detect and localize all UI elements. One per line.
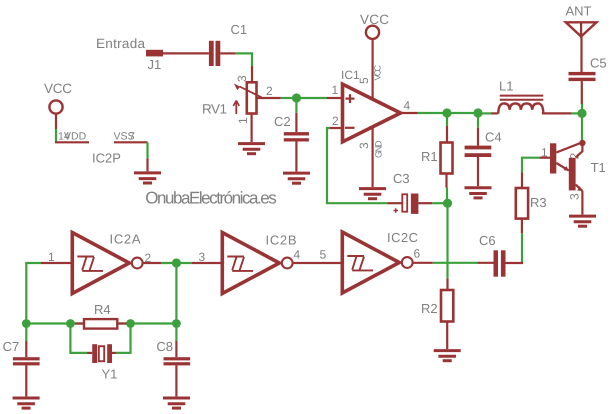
junction node C7 xyxy=(22,319,31,328)
svg-text:C1: C1 xyxy=(231,22,248,37)
wire RV1 pin2 to junction xyxy=(257,97,281,99)
svg-text:IC2B: IC2B xyxy=(266,233,297,248)
svg-text:T1: T1 xyxy=(591,160,606,175)
wire VCC to IC2P VDD xyxy=(55,129,57,142)
svg-text:VCC: VCC xyxy=(373,65,383,81)
svg-text:C2: C2 xyxy=(274,114,291,129)
resistor R3 xyxy=(516,188,547,219)
wire C1 to corner xyxy=(220,52,235,54)
svg-text:C8: C8 xyxy=(156,339,173,354)
svg-text:Y1: Y1 xyxy=(102,367,118,382)
wire R4 row xyxy=(26,322,176,324)
capacitor C6 xyxy=(479,233,506,277)
wire T1 emitter to ground xyxy=(581,191,583,215)
svg-text:R1: R1 xyxy=(421,149,438,164)
wire C2 to ground xyxy=(295,142,297,172)
wire junction to C2 xyxy=(295,98,297,113)
wire IC2A out down to R4 row xyxy=(175,263,177,324)
junction node Y1 left xyxy=(66,319,75,328)
wire junction to IC1 pin1 xyxy=(297,97,328,99)
capacitor C2 xyxy=(274,114,309,142)
wire R2 to ground xyxy=(446,322,448,350)
wire IC2A out xyxy=(143,262,161,264)
ground (C4) xyxy=(465,188,492,198)
svg-text:6: 6 xyxy=(414,247,421,261)
svg-text:C7: C7 xyxy=(3,339,20,354)
op-amp IC1 xyxy=(332,65,411,159)
wire VSS to ground xyxy=(146,142,148,158)
resistor R1 xyxy=(421,113,453,203)
svg-text:5: 5 xyxy=(320,248,327,262)
wire IC1 pin3 to ground xyxy=(372,128,374,187)
ground (C8) xyxy=(163,398,190,408)
power symbol VCC (left) xyxy=(44,81,72,129)
svg-text:C3: C3 xyxy=(393,171,410,186)
wire T1 base to R3 xyxy=(539,157,550,159)
svg-text:ANT: ANT xyxy=(566,4,592,19)
feedback wire IC1 pin2 to C3 xyxy=(329,127,341,129)
junction node IC2A out xyxy=(172,258,181,267)
capacitor C3 (polarized) xyxy=(393,171,418,214)
svg-text:3: 3 xyxy=(357,142,371,149)
wire junction to L1 xyxy=(478,112,491,114)
svg-text:RV1: RV1 xyxy=(202,102,227,117)
svg-text:4: 4 xyxy=(404,99,411,113)
svg-text:C4: C4 xyxy=(485,130,502,145)
svg-text:J1: J1 xyxy=(148,57,162,72)
svg-text:3: 3 xyxy=(199,250,206,264)
ground (T1) xyxy=(569,216,596,226)
svg-text:2: 2 xyxy=(332,114,339,128)
wire to IC2B pin3 xyxy=(192,262,221,264)
wire ANT to C5 xyxy=(580,37,582,72)
wire IC1 output pin4 xyxy=(401,112,418,114)
potentiometer RV1 xyxy=(202,75,273,124)
inverter IC2A xyxy=(48,232,152,294)
junction node C4 xyxy=(473,108,482,117)
wire IC2B out to IC2C in xyxy=(293,262,341,264)
svg-text:VDD: VDD xyxy=(64,131,87,143)
ground (R2) xyxy=(434,351,461,361)
wire L1 to junction xyxy=(542,112,571,114)
ground (IC1) xyxy=(359,189,386,199)
antenna ANT xyxy=(566,4,597,38)
IC2P pin VDD (pin 14) xyxy=(55,131,89,143)
svg-text:4: 4 xyxy=(294,248,301,262)
junction node Y1 right xyxy=(126,319,135,328)
capacitor C8 xyxy=(156,324,190,397)
inductor L1 xyxy=(498,79,543,114)
wire VCC to IC1 pin5 xyxy=(372,39,374,99)
wire R1/C3 junction down to R2 xyxy=(446,203,448,278)
svg-text:IC2A: IC2A xyxy=(110,232,141,247)
wire C3 to junction xyxy=(418,202,432,204)
svg-text:OnubaElectrónica.es: OnubaElectrónica.es xyxy=(145,189,277,208)
ground (C7) xyxy=(13,398,40,408)
wire junction to T1 collector xyxy=(581,113,583,141)
svg-text:7: 7 xyxy=(129,131,135,143)
inverter IC2B xyxy=(199,233,301,294)
junction node C8 xyxy=(172,319,181,328)
svg-text:Entrada: Entrada xyxy=(96,36,145,51)
wire C5 to junction xyxy=(581,81,583,104)
svg-text:C6: C6 xyxy=(479,233,496,248)
svg-text:R2: R2 xyxy=(421,301,438,316)
junction node R1/C3 xyxy=(443,199,452,208)
svg-text:IC2P: IC2P xyxy=(92,151,121,166)
wire RV1 pin1 to ground xyxy=(251,114,253,143)
wire J1 to C1 xyxy=(163,52,209,54)
svg-text:R3: R3 xyxy=(530,195,547,210)
svg-text:1: 1 xyxy=(332,83,339,97)
resistor R4 xyxy=(75,302,127,329)
IC2P pin VSS (pin 7) xyxy=(114,131,148,143)
svg-text:IC2C: IC2C xyxy=(387,230,418,245)
capacitor C5 xyxy=(569,56,607,82)
junction node IC1 out / R1 xyxy=(442,108,451,117)
connector J1 xyxy=(146,50,163,72)
svg-text:5: 5 xyxy=(357,77,371,84)
wire to C4 junction xyxy=(447,112,478,114)
svg-text:1: 1 xyxy=(236,117,250,124)
svg-text:VCC: VCC xyxy=(360,12,389,27)
wire IC2C out xyxy=(413,262,433,264)
junction node RV1/C2/IC1 xyxy=(292,93,301,102)
ground (IC2P VSS) xyxy=(134,173,161,183)
wire corner to IC2A pin1 xyxy=(26,263,41,324)
capacitor C1 xyxy=(209,22,247,66)
capacitor C4 xyxy=(465,113,502,186)
svg-text:L1: L1 xyxy=(499,79,513,94)
svg-text:GND: GND xyxy=(374,140,384,158)
svg-text:2: 2 xyxy=(266,84,273,98)
svg-text:3: 3 xyxy=(568,193,582,200)
junction node L1/C5/T1 xyxy=(577,109,586,118)
ground (C2) xyxy=(283,173,310,183)
svg-text:R4: R4 xyxy=(94,302,111,317)
ground (RV1) xyxy=(238,144,265,154)
transistor T1 (darlington) xyxy=(541,140,606,200)
svg-text:C5: C5 xyxy=(590,56,607,71)
svg-text:3: 3 xyxy=(235,75,249,82)
svg-text:VCC: VCC xyxy=(44,81,72,96)
crystal Y1 xyxy=(70,324,130,382)
power symbol VCC (IC1) xyxy=(360,12,389,39)
resistor R2 xyxy=(421,290,453,322)
capacitor C7 xyxy=(3,324,40,397)
inverter IC2C xyxy=(320,230,421,293)
wire R3 to C6 xyxy=(521,219,523,234)
